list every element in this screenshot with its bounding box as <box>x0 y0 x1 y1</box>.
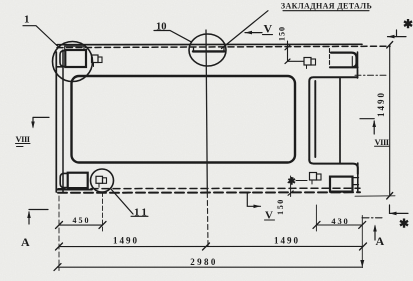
wire top-right step <box>342 70 358 77</box>
lifting plate bottom-left bottom stub <box>57 189 92 191</box>
section V top arrow <box>245 32 262 34</box>
wire extension line right lower <box>361 216 363 268</box>
section A right arrowhead <box>373 225 377 232</box>
embedded part symbol detail 11 box <box>96 176 103 183</box>
callout circle detail 1 <box>53 42 93 82</box>
dimension 1490 right tick bottom <box>387 193 393 200</box>
svg-text:✱: ✱ <box>403 17 413 31</box>
wire extension line 430 left <box>315 205 317 231</box>
dimension 430 line <box>316 224 362 226</box>
lifting plate top-right inner vertical <box>351 57 353 67</box>
svg-text:A: A <box>21 235 30 249</box>
wire panel left inner edge <box>62 50 64 192</box>
dimension 150 top tick lower <box>285 59 290 64</box>
node embedded plate detail 10 bar <box>193 50 225 52</box>
wire panel bottom edge dashed lower <box>58 191 360 194</box>
lifting plate top-left detail 1 bottom stub <box>57 66 62 68</box>
svg-text:VIII: VIII <box>375 137 390 147</box>
lifting plate bottom-left main rect <box>68 173 88 188</box>
section VIII right arrowhead <box>372 120 376 127</box>
svg-text:1: 1 <box>24 14 30 26</box>
wire rib slot bottom cap <box>309 160 358 174</box>
section A right dashdot <box>362 217 382 219</box>
lifting plate top-right outer <box>330 53 358 68</box>
embedded part symbol top-right box <box>304 58 311 66</box>
wire panel right edge <box>357 52 359 78</box>
dimension 430 tick left <box>313 221 320 228</box>
svg-text:2980: 2980 <box>190 257 218 267</box>
section V bottom label underline <box>265 219 275 221</box>
dimension 450 line <box>59 224 103 226</box>
wire extension line left edge lower <box>58 196 60 271</box>
wire detail 10 notch left side <box>193 48 195 52</box>
svg-text:1490: 1490 <box>113 235 139 245</box>
section V top arrowhead <box>245 31 252 35</box>
wire leader label 11 <box>111 189 134 215</box>
wire panel bottom edge dashed upper <box>58 187 360 190</box>
embedded part symbol top-left box <box>92 55 99 63</box>
wire leader embedded detail note <box>222 11 269 49</box>
callout circle detail 11 <box>91 169 114 192</box>
wire leader label 10 <box>154 31 191 42</box>
section star bottom-right arrowhead <box>390 212 397 216</box>
section star top-right mark <box>388 30 407 37</box>
lifting plate bottom-right cap mid line <box>353 184 359 186</box>
embedded part symbol detail 11 tick <box>98 183 100 187</box>
wire panel centerline <box>206 30 207 193</box>
wire extension line 450 right <box>102 192 104 231</box>
wire panel top edge solid <box>57 43 362 45</box>
lifting plate bottom-right cap top line <box>353 177 359 179</box>
svg-text:VIII: VIII <box>16 134 31 144</box>
svg-text:A: A <box>376 234 385 248</box>
svg-text:✱: ✱ <box>288 177 297 188</box>
embedded part symbol top-left small box <box>98 57 102 63</box>
dimension 150 bottom tick lower <box>288 191 293 196</box>
section V top label underline <box>263 34 273 36</box>
embedded part symbol bottom-right box <box>310 173 317 181</box>
lifting plate bottom-left left cap <box>60 173 67 187</box>
svg-text:1490: 1490 <box>376 91 386 117</box>
section A right arrow <box>374 226 376 240</box>
wire note dash to bottom-right symbol <box>296 180 307 182</box>
wire centerline extension dashed <box>206 193 209 246</box>
dimension 1490 bottom line <box>59 245 363 247</box>
dimension 450 tick right <box>99 222 106 229</box>
lifting plate bottom-right main rect <box>330 177 353 192</box>
embedded part symbol top-right small box <box>311 59 316 65</box>
wire extension dashdot right mid <box>355 74 388 76</box>
lifting plate top-right left edge <box>329 49 331 67</box>
dimension 1490 tick left <box>56 243 63 250</box>
svg-text:150: 150 <box>276 198 285 215</box>
wire underline embedded detail note <box>283 10 369 12</box>
svg-text:10: 10 <box>156 22 167 33</box>
wire leader label 1 <box>23 26 59 47</box>
wire panel left outer edge <box>55 52 57 192</box>
lifting plate top-left detail 1 upper hidden rect <box>65 46 84 50</box>
embedded part symbol detail 11 small box <box>103 178 107 184</box>
dimension 1490 tick mid <box>203 243 210 250</box>
embedded part symbol top-left tick <box>93 63 95 67</box>
dimension 2980 tick left <box>54 264 61 271</box>
embedded part symbol bottom-right small box <box>317 174 322 180</box>
lifting plate top-left detail 1 left cap <box>60 51 65 67</box>
lifting plate top-left detail 1 main rect <box>65 50 86 67</box>
dimension 1490 right tick top <box>387 42 393 49</box>
dimension 150 bottom vertical <box>290 176 292 197</box>
section VIII right mark <box>360 119 374 134</box>
section A left arrowhead <box>27 211 31 218</box>
wire panel right edge lower <box>357 163 359 191</box>
dimension 2980 line <box>58 266 363 268</box>
section star bottom-right mark <box>390 205 409 213</box>
dimension 150 top tick upper <box>285 45 290 50</box>
embedded part symbol top-right tick <box>306 65 308 69</box>
svg-text:430: 430 <box>331 216 349 226</box>
wire extension bottom edge right <box>355 195 395 197</box>
svg-text:V: V <box>264 22 273 36</box>
section VIII left label underline <box>16 144 31 147</box>
section A left mark <box>29 210 48 225</box>
callout circle detail 10 <box>189 34 226 66</box>
wire detail 10 notch right side <box>223 48 225 52</box>
section V bottom arrowhead <box>254 205 261 209</box>
svg-text:V: V <box>265 210 273 222</box>
svg-text:11: 11 <box>134 207 149 219</box>
wire right recess left edge <box>339 79 341 164</box>
dimension 150 top vertical line <box>288 41 305 61</box>
wire panel top edge hidden dashed <box>57 46 390 47</box>
dimension 450 tick left <box>56 222 63 229</box>
dimension 150 bottom tick upper <box>288 178 293 183</box>
wire rib slot left vertical pair B <box>314 81 316 157</box>
wire rib slot left vertical pair A <box>309 77 357 160</box>
node main recess rounded rectangle <box>72 76 296 163</box>
embedded part symbol bottom-right tick <box>311 180 313 184</box>
dimension 2980 arrow right <box>360 260 364 267</box>
dimension 430 tick right <box>359 221 366 228</box>
dimension 1490 right vertical line <box>389 45 391 196</box>
svg-text:ЗАКЛАДНАЯ ДЕТАЛЬ: ЗАКЛАДНАЯ ДЕТАЛЬ <box>281 2 372 11</box>
svg-text:450: 450 <box>73 216 91 225</box>
svg-text:1490: 1490 <box>274 235 300 245</box>
svg-text:150: 150 <box>278 26 287 41</box>
section V bottom mark <box>244 192 261 206</box>
wire underline label 11 <box>131 215 148 217</box>
section VIII right label underline <box>375 145 390 147</box>
section VIII left mark <box>33 117 49 127</box>
section VIII left arrowhead <box>31 122 35 129</box>
svg-text:✱: ✱ <box>399 217 409 231</box>
dimension 1490 tick right <box>360 243 367 250</box>
section star top-right arrowhead <box>388 35 395 39</box>
